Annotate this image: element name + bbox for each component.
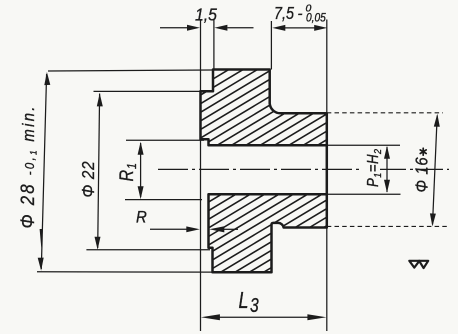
extension line right face [326,20,328,332]
hatching lower section [196,0,332,334]
svg-text:1,5: 1,5 [195,5,218,25]
dimension phi 16 [412,114,439,227]
svg-text:P1=H2: P1=H2 [365,149,384,187]
extension line rim face [213,20,215,70]
svg-text:L: L [239,288,249,314]
svg-text:3: 3 [250,294,259,316]
dimension 7,5 -0,05 [272,3,327,31]
dimension 1,5 [160,5,254,31]
extension line left face [200,20,202,332]
dimension phi 28 -0,1 min [17,70,212,272]
bore bottom extension line [327,193,401,195]
centerline axis [158,168,361,170]
leader R radius [136,209,238,233]
dimension phi 22 [78,91,210,249]
svg-text:Φ 22: Φ 22 [78,161,98,198]
boss bottom extension line [327,225,450,227]
dimension L3 [201,288,327,320]
extension line flange right face [270,21,272,70]
svg-text:-: - [298,6,303,23]
svg-text:Φ 16: Φ 16 [412,156,431,192]
dimension R1 recess [116,140,204,199]
part outline: flange, boss, bore, recess [201,70,327,273]
surface finish symbol triangles [409,261,428,268]
svg-text:7,5: 7,5 [274,5,294,24]
svg-text:0,05: 0,05 [306,12,327,25]
svg-text:R: R [136,209,147,227]
recess wall and bore top edge [201,91,327,145]
boss top extension line [327,112,443,114]
hatching upper section [196,0,332,334]
bore top extension line [327,144,400,146]
dimension P1=H2 bore [365,146,390,193]
